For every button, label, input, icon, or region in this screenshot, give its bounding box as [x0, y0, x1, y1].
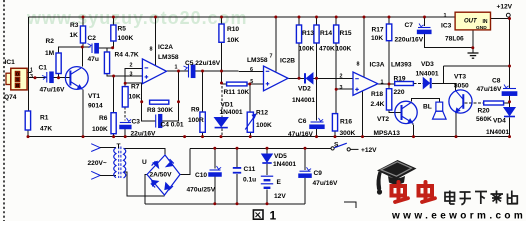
junction plus rail VD5 [266, 147, 269, 150]
svg-text:C1: C1 [39, 65, 48, 72]
junction rail R16 [334, 135, 337, 138]
junction plus rail C9 [304, 147, 307, 150]
svg-text:220V~: 220V~ [88, 160, 107, 167]
junction plus rail C11 [236, 147, 239, 150]
svg-text:R11 10K: R11 10K [224, 89, 250, 96]
svg-text:1K: 1K [70, 32, 79, 39]
wire: R16 bottom [334, 131, 336, 137]
wire: R7 to C3 [124, 107, 126, 121]
wire: C3 bottom to rail [124, 129, 126, 137]
svg-text:IC1: IC1 [5, 59, 16, 66]
wire: IC3A output to R19 [378, 83, 395, 85]
wire: IC2A power pin8 [155, 17, 157, 65]
wire: R3 bottom lead [82, 43, 84, 47]
svg-text:T: T [117, 143, 121, 150]
svg-text:R12: R12 [256, 110, 268, 117]
wire: R1 bottom to ground rail [27, 130, 29, 137]
wire: R12 bottom [249, 132, 251, 136]
wire: IC3A power pin8 [363, 17, 365, 77]
svg-text:1: 1 [175, 65, 178, 71]
resistor R9 [200, 112, 205, 132]
capacitor C8 polarized 47u/16V [502, 85, 517, 96]
svg-text:S: S [334, 142, 339, 149]
junction top rail C7 [423, 16, 426, 19]
wire: pin2 node to feedback top [125, 83, 142, 102]
svg-text:R4 4.7K: R4 4.7K [115, 52, 139, 59]
wire: R10 column down to node [221, 42, 223, 84]
junction rail stray [183, 135, 186, 138]
pyro sensor IC1 Q74 [6, 68, 27, 90]
wire: R20 right to column [504, 102, 510, 104]
svg-text:8: 8 [150, 47, 153, 53]
wire: C11 bottom [236, 174, 238, 204]
capacitor C2 polarized 47u [88, 44, 99, 54]
svg-text:47u/16V: 47u/16V [477, 86, 503, 93]
diode VD4 1N4001 [504, 108, 515, 117]
svg-text:2A/50V: 2A/50V [150, 172, 173, 179]
potentiometer R12 [247, 112, 253, 132]
wire: R6 bottom [113, 134, 115, 137]
wire: R11 right to IC2B pin5 [247, 83, 264, 85]
junction minus rail battery [266, 202, 269, 205]
junction collector node VT1 [81, 46, 84, 49]
junction feedback left [140, 100, 143, 103]
capacitor C9 polarized 47u/16V [299, 167, 311, 177]
svg-text:470K: 470K [319, 46, 335, 53]
svg-text:VD1: VD1 [221, 102, 234, 109]
svg-text:www.eeworm.com: www.eeworm.com [391, 211, 524, 222]
wire: R17 column top [388, 17, 390, 24]
wire: VT3 collector to R20 [465, 102, 484, 104]
svg-text:R6: R6 [99, 115, 108, 122]
svg-text:+12V: +12V [361, 147, 377, 154]
wire: bottom ground rail [28, 136, 510, 138]
wire: VD3 to +12V corner node [432, 83, 443, 85]
svg-text:VT3: VT3 [454, 74, 466, 81]
svg-text:220u/16V: 220u/16V [395, 37, 424, 44]
svg-text:8050: 8050 [454, 83, 469, 90]
wire: R13 top lead [298, 17, 300, 25]
resistor R15 [334, 25, 339, 43]
junction rail VT2 emitter [412, 135, 415, 138]
battery E 12V [261, 176, 273, 189]
capacitor C11 0.1u [233, 167, 241, 174]
svg-text:560K: 560K [476, 116, 492, 123]
svg-text:U: U [142, 159, 147, 166]
wire: IC1 pin2 to C1 [27, 77, 46, 79]
svg-text:R15: R15 [340, 30, 352, 37]
wire: R3 top lead [82, 17, 84, 26]
svg-text:S: S [16, 77, 19, 82]
logo text dianzi xiazaizhan black glyphs [445, 191, 518, 205]
junction divider node [335, 88, 338, 91]
resistor R20 [484, 101, 504, 105]
wire: feedback left column to C4 [142, 102, 156, 121]
junction top rail IC2A power [154, 16, 157, 19]
svg-text:C5 22u/16V: C5 22u/16V [185, 60, 221, 67]
junction VD2 right node [315, 77, 318, 80]
junction R2 base node [57, 76, 60, 79]
svg-text:R17: R17 [372, 27, 384, 34]
junction +12V column top [508, 65, 511, 68]
wire: plug bottom to transformer [100, 175, 116, 177]
wire: bridge left corner to minus rail [145, 175, 147, 204]
wire: +12V corner down [442, 66, 444, 84]
junction feedback right [177, 100, 180, 103]
svg-text:47u/16V: 47u/16V [313, 180, 339, 187]
resistor R1 [25, 111, 30, 130]
svg-text:R8 300K: R8 300K [147, 107, 173, 114]
resistor R8 [150, 100, 169, 104]
junction R11 left [220, 82, 223, 85]
svg-text:IC3: IC3 [441, 23, 452, 30]
wire: IC3A ground pin4 [362, 91, 364, 137]
wire: R6 column [113, 76, 115, 113]
wire: collector node y47 (R2 top / R3 bottom / C2 left / VT1 collector) [59, 47, 91, 53]
junction +12V terminal [508, 17, 511, 20]
wire: C7 column from rail [424, 17, 426, 26]
wire: VD4 bottom to rail [509, 118, 511, 137]
wire: mains plug bottom prong [91, 171, 100, 179]
wire: VD2 node to IC3A pin2 [313, 77, 353, 79]
wire: R5 bottom lead [112, 41, 114, 48]
resistor R5 [111, 25, 116, 41]
wire: +12V horizontal to right column [443, 65, 509, 67]
svg-text:9014: 9014 [88, 103, 103, 110]
wire: VT1 emitter down [82, 90, 84, 137]
wire: R12 column [249, 84, 251, 112]
svg-text:OUT: OUT [464, 19, 478, 25]
junction R6 tap [112, 75, 115, 78]
junction top rail R10 [220, 16, 223, 19]
svg-text:100K: 100K [256, 122, 272, 129]
wire: C5 right to IC2B pin6 [195, 70, 264, 72]
svg-text:1N4001: 1N4001 [273, 161, 296, 168]
svg-text:E: E [277, 179, 282, 186]
svg-text:R1: R1 [40, 115, 49, 122]
transistor VT1 9014 [65, 67, 88, 90]
transformer T windings [114, 147, 126, 179]
junction top rail R5 [112, 16, 115, 19]
wire: minus rail of supply [145, 203, 305, 205]
svg-text:R2: R2 [46, 38, 55, 45]
svg-text:IC2B: IC2B [280, 58, 295, 65]
junction rail R6 [112, 135, 115, 138]
wire: R5 top lead [112, 17, 114, 25]
junction minus rail C11 [236, 202, 239, 205]
wire: C6 bottom to rail [316, 129, 318, 137]
svg-text:R16: R16 [340, 119, 352, 126]
junction R13 output node [298, 77, 301, 80]
wire: top +6V rail [29, 16, 456, 18]
resistor R19 [395, 82, 414, 86]
svg-text:IN: IN [483, 19, 488, 25]
svg-text:+12V: +12V [497, 4, 513, 11]
junction plus rail C10 [213, 147, 216, 150]
junction C2 right node [111, 46, 114, 49]
wire: VT2 emitter down [413, 123, 414, 137]
svg-text:R20: R20 [478, 108, 490, 115]
transistor VT2 MPSA13 [395, 101, 417, 123]
wire: R19 to VD3 [413, 83, 423, 85]
op-amp IC2A LM358 [142, 59, 166, 84]
wire: regulator GND pin down [472, 30, 474, 53]
resistor R6 [111, 113, 116, 134]
svg-text:R14: R14 [320, 30, 332, 37]
resistor R7 [122, 87, 128, 107]
diode VD5 1N4001 [262, 154, 272, 163]
junction rail C6 [315, 135, 318, 138]
svg-text:100K: 100K [336, 46, 352, 53]
wire: feedback right column output to C4 [162, 71, 179, 121]
wire: R11 left lead [222, 83, 227, 85]
svg-text:0.1u: 0.1u [243, 177, 256, 184]
diode VD2 1N4001 [305, 73, 313, 83]
wire: R2 bottom lead [58, 74, 60, 78]
svg-text:C2: C2 [88, 35, 97, 42]
capacitor C1 polarized 47u/16V [42, 72, 53, 83]
svg-text:LM393: LM393 [391, 62, 412, 69]
wire: C9 bottom [304, 178, 306, 204]
wire: VD1 dashed column upper [221, 86, 223, 117]
wire: mains plug top prong [91, 144, 100, 152]
wire: VT2 collector to speaker [412, 99, 440, 103]
junction rail R9 [201, 135, 204, 138]
junction R20 column [508, 100, 511, 103]
svg-text:R13: R13 [302, 30, 314, 37]
wire: R15 column [335, 43, 337, 114]
junction top rail IC2B power [274, 16, 277, 19]
resistor R11 [227, 82, 247, 86]
svg-text:R9: R9 [191, 107, 200, 114]
svg-text:IC2A: IC2A [158, 44, 173, 51]
resistor R10 [219, 24, 224, 42]
svg-text:R10: R10 [227, 26, 239, 33]
junction rail R1 [27, 135, 30, 138]
wire: regulator OUT to +12V terminal column [491, 18, 510, 20]
junction rail VD1 [220, 135, 223, 138]
resistor R13 [296, 25, 301, 43]
svg-text:VD5: VD5 [274, 153, 287, 160]
svg-text:R19: R19 [394, 76, 406, 83]
capacitor C10 polarized 470u/25V [209, 166, 221, 176]
svg-text:R3: R3 [70, 22, 79, 29]
wire: R14 node down to C6 [316, 78, 318, 120]
resistor R17 [386, 24, 391, 41]
capacitor C4 0.01 [156, 115, 162, 128]
junction rail C3 [124, 135, 127, 138]
wire: left bus from rail down to R1 [28, 17, 30, 111]
svg-text:VT2: VT2 [377, 116, 389, 123]
wire: VT1 collector up [81, 47, 83, 67]
svg-text:LM358: LM358 [247, 57, 268, 64]
junction rail IC3A ground [361, 135, 364, 138]
wire: R4 bottom to IC2A pin3 [107, 74, 142, 76]
wire: VD1 dashed column lower [221, 129, 223, 137]
wire: R10 top lead [221, 17, 223, 24]
terminal circle +12V output [506, 13, 510, 17]
svg-text:R7: R7 [131, 84, 140, 91]
junction top rail R17 [388, 16, 391, 19]
wire: R13 column [298, 43, 300, 78]
svg-text:3: 3 [30, 74, 33, 80]
wire: C2 right node to R4/R5 [99, 47, 114, 49]
switch S blade and wire [331, 143, 359, 151]
svg-text:C11: C11 [244, 166, 256, 173]
capacitor C3 polarized 22u/16V [120, 118, 131, 129]
ground symbol under regulator [468, 53, 479, 58]
svg-text:3: 3 [130, 72, 133, 78]
svg-text:1M: 1M [45, 50, 55, 57]
svg-text:LM358: LM358 [158, 54, 179, 61]
svg-text:C9: C9 [314, 170, 323, 177]
wire: C10 bottom [214, 176, 216, 204]
junction top rail R3 [82, 16, 85, 19]
potentiometer R12 wiper arrow [245, 114, 256, 129]
resistor R2 [56, 53, 61, 74]
wire: R4 top lead [106, 48, 108, 52]
wire: C8 bottom to VD4 [509, 96, 511, 108]
wire: C10 column [214, 148, 216, 168]
svg-text:Q74: Q74 [4, 94, 17, 101]
resistor R18 [386, 89, 391, 110]
svg-text:1N4001: 1N4001 [220, 109, 243, 116]
transistor VT3 8050 [449, 90, 472, 113]
junction R11 right pin5 [248, 83, 251, 86]
junction R17 R18 node [388, 83, 391, 86]
svg-text:C10: C10 [195, 172, 207, 179]
junction rail VD4 [508, 135, 511, 138]
svg-text:1N4001: 1N4001 [416, 71, 439, 78]
svg-text:IC3A: IC3A [370, 62, 385, 69]
op-amp IC2B LM358 [264, 66, 289, 91]
logo text chongchong red [392, 182, 436, 202]
svg-text:470u/25V: 470u/25V [187, 187, 216, 194]
wire: VD5 to battery [266, 164, 268, 175]
svg-text:R5: R5 [118, 26, 127, 33]
svg-text:C6: C6 [298, 118, 307, 125]
svg-text:C3: C3 [132, 119, 141, 126]
speaker BL [433, 102, 447, 119]
wire: IC2A pin2 bend to R7 [125, 69, 142, 87]
wire: R17 bottom to node [388, 41, 390, 89]
svg-text:2.4K: 2.4K [371, 101, 385, 108]
wire: VT3 emitter down [455, 113, 457, 137]
svg-text:78L06: 78L06 [445, 36, 464, 43]
svg-text:C8: C8 [492, 78, 501, 85]
svg-text:BL: BL [423, 104, 432, 111]
junction regulator ground [471, 46, 474, 49]
svg-text:5: 5 [250, 79, 253, 85]
junction rail VT1 emitter [82, 135, 85, 138]
junction top rail R13 [298, 16, 301, 19]
wire: R14 column [316, 43, 318, 78]
junction top rail R15 [335, 16, 338, 19]
svg-text:GND: GND [476, 25, 487, 31]
corner crop mark bottom [344, 202, 356, 208]
wire: C7 bottom to regulator ground node [425, 34, 473, 48]
resistor R4 [104, 52, 109, 74]
svg-text:100K: 100K [299, 46, 315, 53]
svg-text:C4 0.01: C4 0.01 [161, 122, 184, 129]
wire: plus rail of supply [190, 147, 331, 149]
wire: IC2B power pin [275, 17, 277, 72]
junction pin2 R7 node [124, 82, 127, 85]
svg-text:7: 7 [270, 54, 273, 60]
svg-text:1: 1 [444, 13, 447, 19]
svg-text:1N4001: 1N4001 [486, 129, 509, 136]
svg-text:22u/16V: 22u/16V [131, 131, 157, 138]
wire: C11 column [236, 148, 238, 167]
svg-text:1N4001: 1N4001 [292, 97, 315, 104]
svg-text:3: 3 [340, 85, 343, 91]
svg-text:6: 6 [250, 67, 253, 73]
svg-text:R18: R18 [371, 91, 383, 98]
svg-text:12V: 12V [274, 193, 286, 200]
wire: plug top to transformer [100, 147, 116, 149]
bridge rectifier U 2A/50V [147, 155, 180, 195]
logo graduation cap [377, 160, 417, 195]
wire: C1 to VT1 base [54, 77, 71, 79]
svg-text:2: 2 [130, 63, 133, 69]
wire: C9 column [304, 148, 306, 170]
svg-text:C7: C7 [405, 22, 414, 29]
wire: battery bottom [266, 190, 268, 204]
wire: R18 bottom to VT2 base [389, 110, 401, 112]
svg-text:47u: 47u [88, 56, 99, 63]
wire: VD5 column [266, 148, 268, 154]
voltage regulator IC3 78L06 [455, 12, 490, 31]
svg-text:10K: 10K [129, 94, 141, 101]
junction rail R12 [249, 135, 252, 138]
wire: R9 bottom [202, 132, 204, 136]
svg-text:100K: 100K [92, 126, 108, 133]
svg-text:10K: 10K [371, 35, 383, 42]
wire: transformer secondary top to bridge top [124, 148, 166, 155]
svg-text:220: 220 [394, 89, 405, 96]
resistor R3 [80, 26, 85, 43]
svg-text:300K: 300K [340, 130, 356, 137]
wire: bridge right corner to plus rail [180, 148, 190, 174]
wire: R15 top lead [335, 17, 337, 25]
svg-text:47u/16V: 47u/16V [40, 87, 66, 94]
svg-text:47K: 47K [40, 126, 52, 133]
torn left edge dotted border [3, 0, 5, 221]
junction IC1 pin2 C1 [34, 76, 37, 79]
svg-text:1: 1 [381, 80, 384, 86]
wire: node to VT3 base top [443, 84, 455, 91]
svg-text:MPSA13: MPSA13 [374, 130, 401, 137]
diode VD3 1N4001 [423, 78, 430, 88]
resistor R14 [314, 25, 319, 43]
junction R9 tap [201, 70, 204, 73]
capacitor C5 polarized 22u/16V [184, 65, 195, 78]
svg-text:100R: 100R [188, 117, 204, 124]
svg-text:VT1: VT1 [88, 93, 100, 100]
junction top rail R14 [315, 16, 318, 19]
wire: R9 column [202, 71, 204, 112]
capacitor C6 polarized 47u/16V [310, 118, 324, 129]
wire: transformer secondary bottom to bridge bottom [124, 172, 165, 196]
svg-text:8: 8 [357, 62, 360, 68]
svg-text:1: 1 [30, 67, 33, 73]
svg-text:47u/16V: 47u/16V [288, 131, 314, 138]
wire: divider node to IC3A pin3 [336, 88, 353, 90]
junction top rail IC3A power [363, 16, 366, 19]
svg-text:2: 2 [340, 73, 343, 79]
caption figure 1 glyph [253, 210, 263, 219]
junction IC2A output [177, 70, 180, 73]
